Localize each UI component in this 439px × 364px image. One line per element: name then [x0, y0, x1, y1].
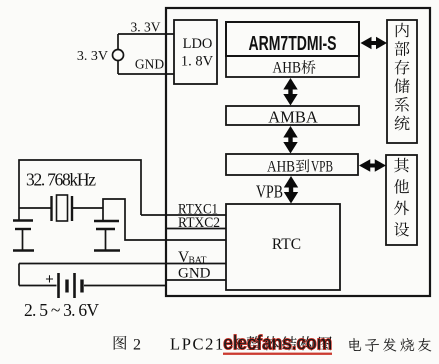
svg-text:RTXC2: RTXC2 [178, 215, 220, 231]
svg-text:VPB: VPB [311, 159, 333, 176]
svg-text:GND: GND [135, 57, 164, 72]
svg-text:3. 3V: 3. 3V [131, 20, 161, 35]
svg-text:VPB: VPB [256, 182, 283, 202]
svg-text:AMBA: AMBA [268, 108, 318, 127]
svg-text:AHB: AHB [273, 60, 302, 77]
svg-text:LDO: LDO [183, 36, 213, 52]
svg-text:1. 8V: 1. 8V [181, 54, 214, 70]
svg-text:2. 5 ~ 3. 6V: 2. 5 ~ 3. 6V [24, 300, 99, 320]
svg-text:2: 2 [133, 337, 141, 354]
svg-text:3. 3V: 3. 3V [77, 49, 108, 64]
svg-text:GND: GND [178, 266, 211, 282]
svg-text:elecfans.com: elecfans.com [223, 333, 332, 355]
svg-text:+: + [45, 272, 53, 288]
svg-text:32. 768kHz: 32. 768kHz [26, 170, 96, 190]
svg-text:BAT: BAT [189, 256, 207, 266]
svg-text:ARM7TDMI-S: ARM7TDMI-S [249, 33, 337, 55]
svg-text:AHB: AHB [267, 159, 295, 176]
svg-text:RTC: RTC [272, 236, 301, 253]
